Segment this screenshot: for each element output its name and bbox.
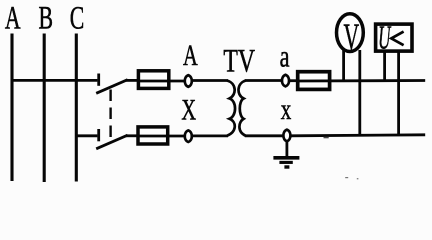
disconnector QS lower blade xyxy=(96,135,127,149)
wire: lower blade to fuse FU2 xyxy=(126,134,138,137)
wire: TV secondary top to terminal a xyxy=(245,79,282,82)
ground bar 3 xyxy=(284,165,289,168)
terminal X (primary) xyxy=(185,130,192,142)
terminal a (secondary) xyxy=(282,75,289,87)
disconnector QS upper fixed contact xyxy=(97,74,100,86)
wire: terminal X to TV primary winding bottom xyxy=(193,134,229,137)
fuse FU1 (primary, phase A) xyxy=(138,71,168,89)
wire: terminal A to TV primary winding xyxy=(193,79,229,82)
voltage relay KV leads xyxy=(383,52,386,81)
terminal x (secondary) xyxy=(283,130,290,142)
disconnector QS lower fixed contact xyxy=(97,129,100,141)
wire: bus C to disconnector QS lower pole xyxy=(76,134,97,137)
terminal A (primary) xyxy=(185,75,192,87)
svg-text:V: V xyxy=(343,15,359,58)
fuse FU3 (secondary) xyxy=(298,72,330,90)
wire: terminal x to right edge xyxy=(291,135,426,136)
wire: terminal a to fuse FU3 xyxy=(289,79,298,82)
fuse FU2 (primary, phase C) xyxy=(138,127,168,144)
wire: bus A to disconnector QS upper pole xyxy=(12,79,97,82)
ground lead from terminal x xyxy=(285,141,288,157)
wire: TV secondary bottom to terminal x xyxy=(245,134,283,137)
disconnector linkage (dashed) xyxy=(109,90,111,143)
busbar C xyxy=(75,34,78,182)
busbar B xyxy=(43,34,46,183)
svg-text:x: x xyxy=(281,92,292,126)
ground bar 1 xyxy=(273,156,299,160)
svg-text:C: C xyxy=(70,0,85,37)
svg-text:A: A xyxy=(5,0,21,37)
svg-text:A: A xyxy=(183,38,198,72)
junction smudge on secondary neutral wire xyxy=(324,137,329,139)
voltmeter PV body xyxy=(337,14,364,52)
svg-text:a: a xyxy=(280,39,290,73)
svg-text:TV: TV xyxy=(223,43,255,80)
svg-text:B: B xyxy=(38,0,53,37)
voltage relay KV body (U< box) xyxy=(376,24,412,51)
wire through fuse FU1 to terminal A xyxy=(137,80,184,83)
voltmeter PV leads xyxy=(342,50,345,81)
wire through fuse FU3 to right edge xyxy=(296,79,425,82)
TV primary winding xyxy=(227,81,235,136)
svg-text:X: X xyxy=(181,93,196,127)
disconnector QS upper blade xyxy=(96,80,127,94)
wire through fuse FU2 to terminal X xyxy=(137,135,184,138)
ground bar 2 xyxy=(279,161,292,164)
svg-text:U: U xyxy=(378,18,391,56)
busbar A xyxy=(10,34,13,182)
TV secondary winding xyxy=(238,81,245,136)
wire: blade to fuse FU1 xyxy=(126,79,138,82)
scan specks xyxy=(345,177,348,178)
